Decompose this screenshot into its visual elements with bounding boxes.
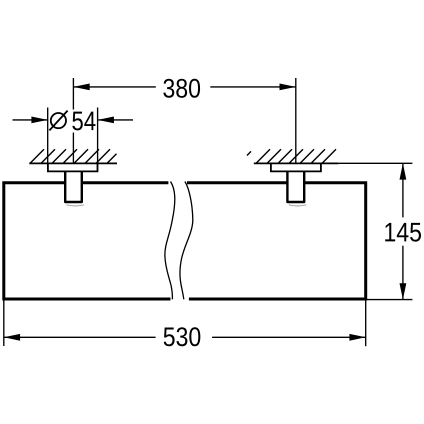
dim 530 left extension line <box>3 300 5 346</box>
left wall line <box>29 162 117 164</box>
dim 530 right arrow <box>349 334 365 341</box>
dim diameter 54 right extension line <box>97 108 99 164</box>
dim diameter 54 left extension line <box>47 108 49 164</box>
break line left curve <box>165 182 175 300</box>
dim 380 line <box>73 86 295 88</box>
dim 380 left extension line <box>72 78 74 163</box>
right wall hatching <box>247 149 336 163</box>
right mount stem <box>287 171 304 202</box>
dim 145 top extension line <box>339 162 413 164</box>
dim 145 label <box>385 223 421 242</box>
diameter symbol <box>49 111 67 131</box>
dim 145 bottom arrow <box>400 283 407 299</box>
dim 380 left arrow <box>73 84 89 91</box>
dim 145 line <box>402 163 404 299</box>
dim diameter 54 left tail line <box>13 119 48 121</box>
left mount stem <box>65 171 82 202</box>
left wall hatching <box>30 149 117 163</box>
break line right curve <box>180 182 193 300</box>
left mount plate <box>48 163 98 171</box>
dim 380 right arrow <box>280 84 296 91</box>
dim diameter 54 right tail line <box>98 119 133 121</box>
dim 380 label <box>163 79 200 98</box>
dim diameter 54 right arrow <box>98 117 114 124</box>
right mount plate <box>271 163 321 171</box>
dim 530 left arrow <box>4 334 20 341</box>
right wall line <box>254 162 339 164</box>
right stem shadow line <box>289 205 307 206</box>
dim 530 line <box>4 336 366 338</box>
shelf outline right part <box>187 183 366 299</box>
dim 145 bottom extension line <box>363 299 412 301</box>
dim 380 right extension line <box>295 78 297 163</box>
shelf outline left part <box>4 183 171 299</box>
dim 54 label <box>72 112 95 131</box>
dim 145 top arrow <box>400 163 407 179</box>
dim 530 right extension line <box>365 300 367 346</box>
dim diameter 54 left arrow <box>31 117 47 124</box>
dim 530 label <box>164 327 201 346</box>
left stem shadow line <box>67 205 85 206</box>
